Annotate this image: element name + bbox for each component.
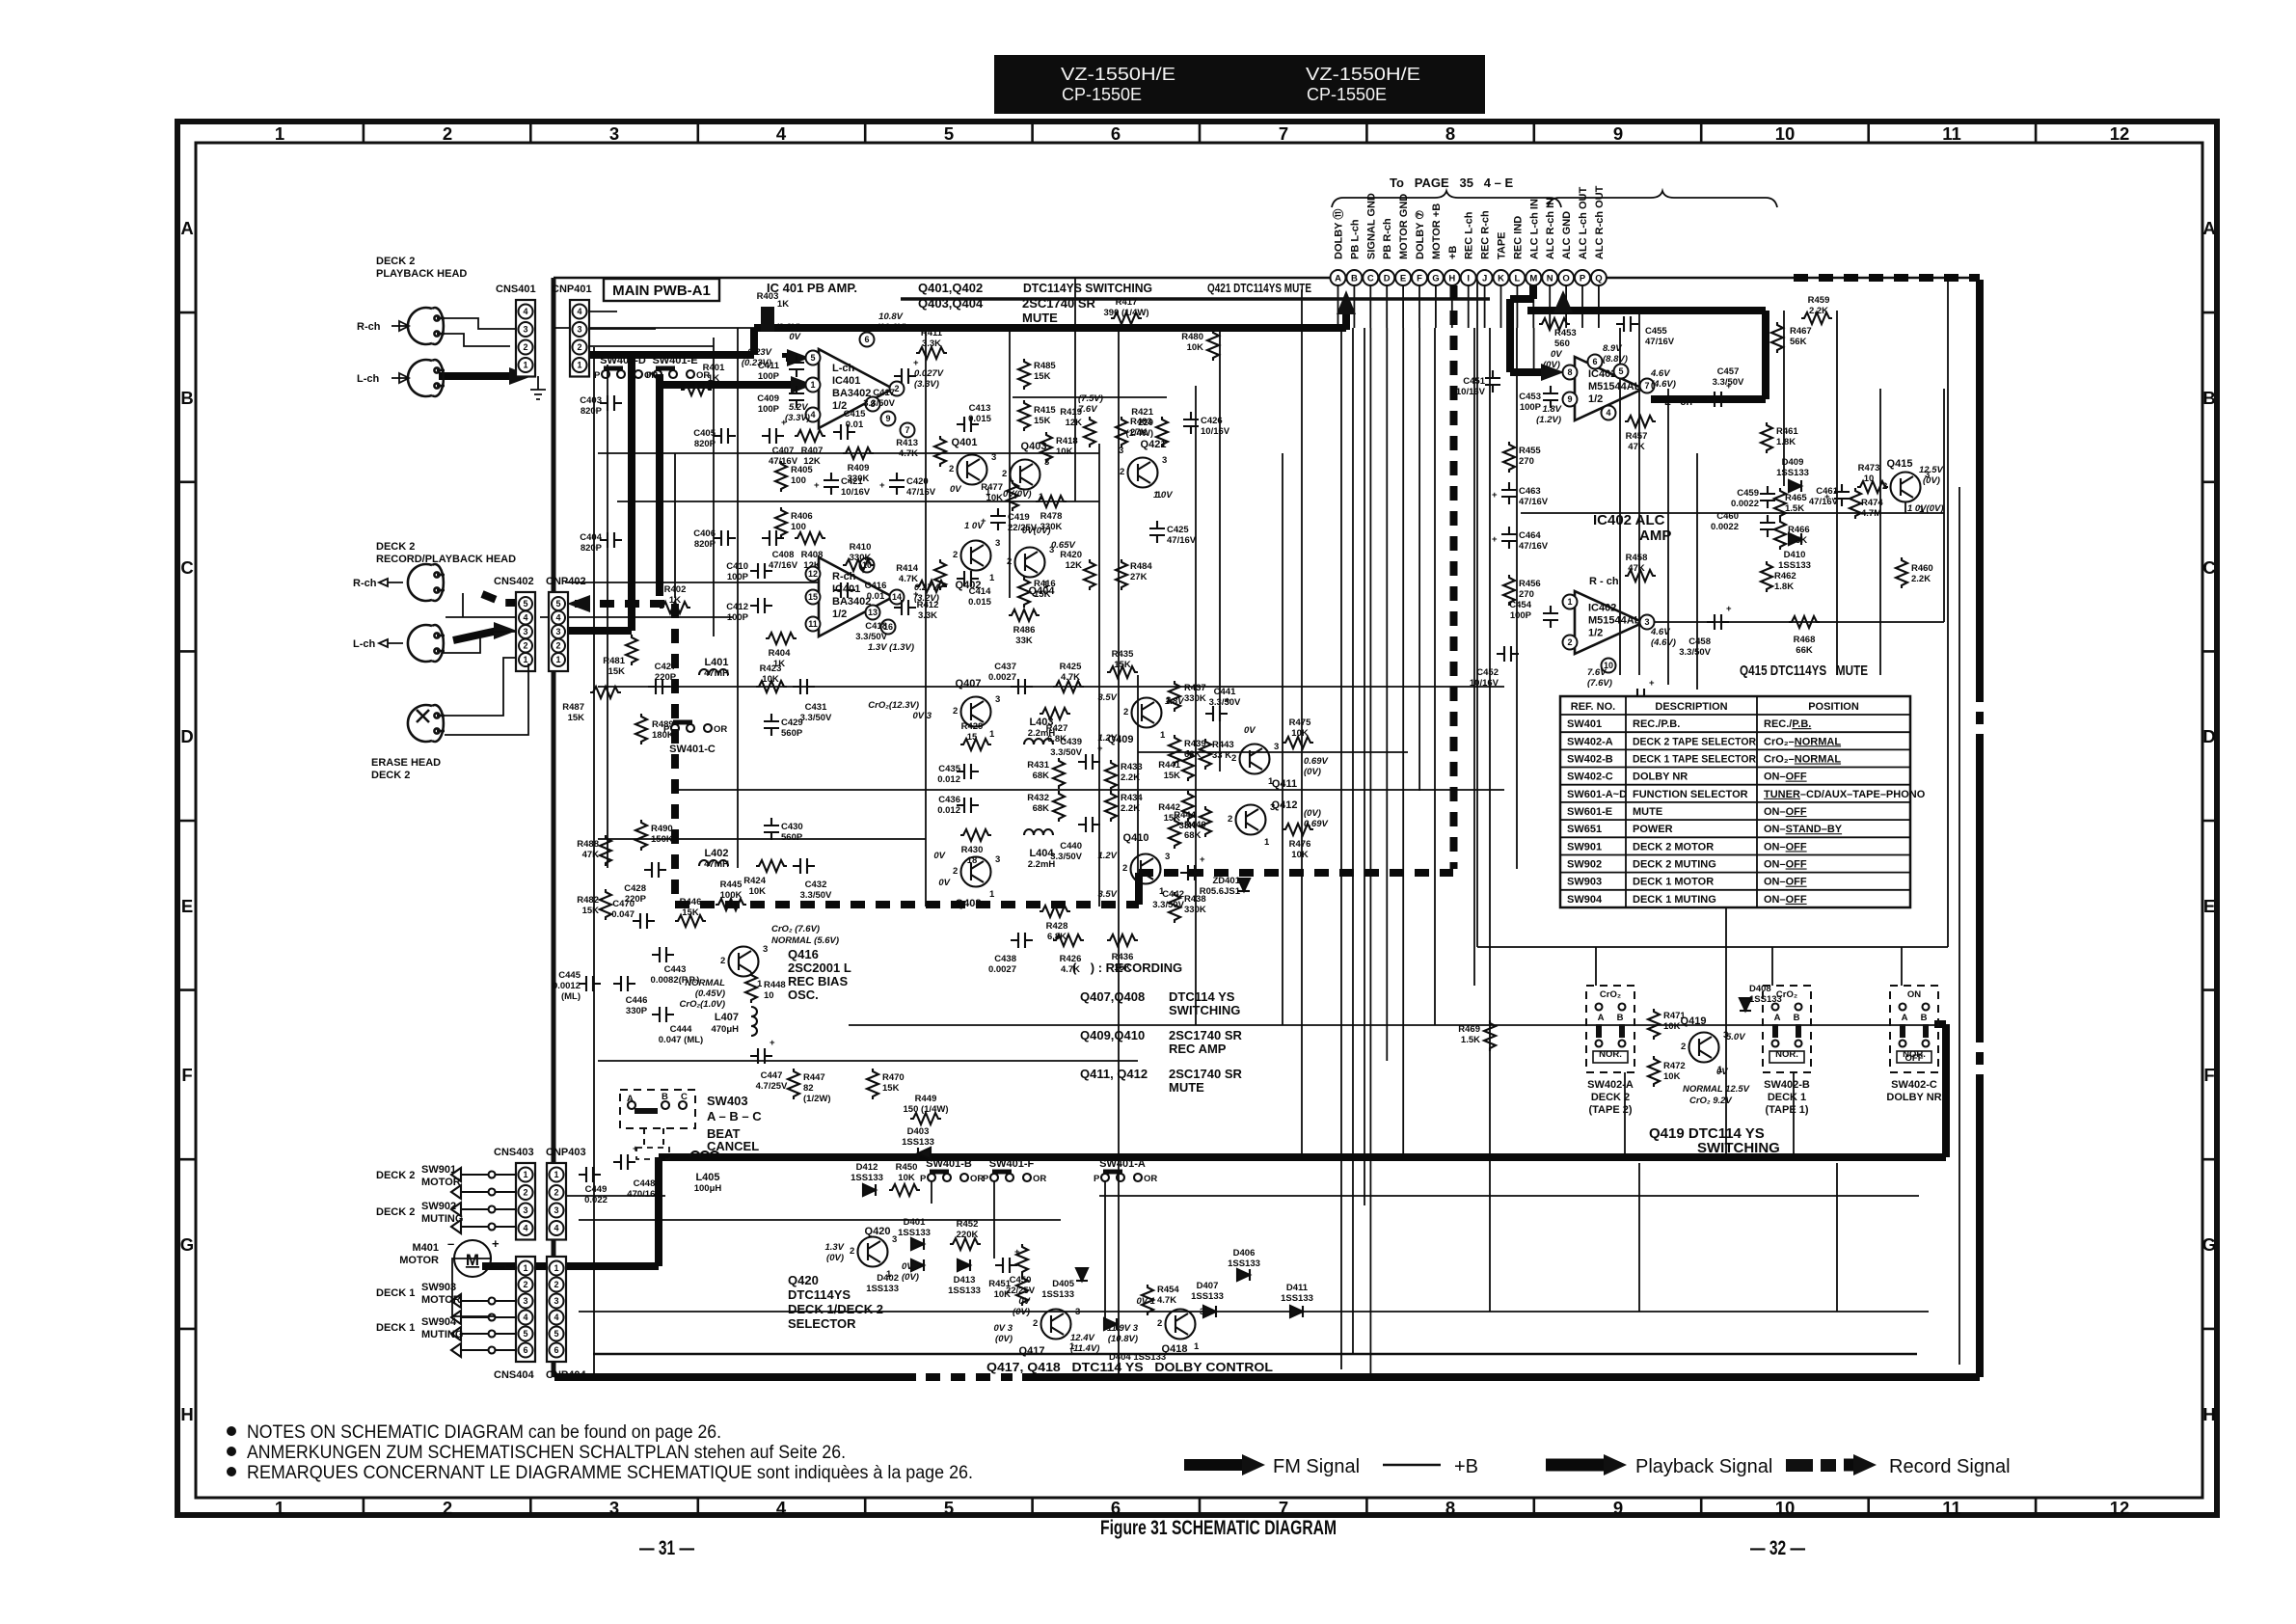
resistor R475 <box>1283 717 1313 748</box>
capacitor C450 <box>995 1247 1036 1296</box>
arrow into IC402 pin 8 <box>1541 364 1564 381</box>
resistor R453 <box>1539 318 1577 349</box>
resistor R457 <box>1625 416 1656 452</box>
wire heavy vertical at SW401-E <box>656 374 663 596</box>
label MAIN PWB-A1 box <box>604 279 719 301</box>
svg-text:DESCRIPTION: DESCRIPTION <box>1655 701 1727 713</box>
wire heads to CNS402 <box>442 593 517 653</box>
switch SW401-A <box>1094 1172 1157 1184</box>
resistor R443 <box>1200 739 1234 770</box>
capacitor C440 <box>1050 817 1100 862</box>
transistor Q412 <box>1228 799 1297 848</box>
connector CNS402 <box>494 576 535 671</box>
inductor L404 <box>1024 829 1055 870</box>
resistor R419 <box>1060 407 1095 447</box>
page outer border <box>177 122 2217 1515</box>
svg-text:REMARQUES CONCERNANT LE DIAGRA: REMARQUES CONCERNANT LE DIAGRAMME SCHEMA… <box>247 1462 973 1483</box>
resistor R486 <box>1009 609 1040 646</box>
wire ALC section box bottom edge <box>1477 946 1948 948</box>
wire heavy bottom rail left <box>554 1373 916 1381</box>
switch SW903 contact a <box>451 1294 517 1308</box>
resistor R478 <box>1036 496 1067 532</box>
diode D408 <box>1740 984 1782 1011</box>
capacitor C428 <box>624 862 666 905</box>
header model plate <box>994 55 1485 114</box>
svg-text:FM Signal: FM Signal <box>1273 1456 1360 1477</box>
switch SW901 contact a <box>451 1168 517 1181</box>
connector CNP403 <box>546 1147 586 1240</box>
svg-text:SW601-A~D: SW601-A~D <box>1567 789 1627 800</box>
diode D <box>1104 1318 1117 1330</box>
transistor Q403 <box>1002 441 1049 502</box>
resistor R484 <box>1116 559 1152 590</box>
resistor R411 <box>916 328 947 359</box>
capacitor C418 <box>855 589 919 642</box>
svg-text:MUTE: MUTE <box>1633 806 1662 818</box>
svg-text:SW902: SW902 <box>1567 859 1602 871</box>
resistor R450 <box>889 1162 920 1196</box>
resistor R435 <box>1107 649 1138 678</box>
inductor L401 <box>699 657 729 679</box>
arrow R-ch rec <box>379 579 403 586</box>
transistor Q409 <box>1108 695 1172 745</box>
resistor R415 <box>1018 400 1056 431</box>
resistor R421 <box>1131 407 1168 447</box>
wire record dashed into CNP402 pin5 <box>575 600 675 608</box>
node B pin circle <box>1346 270 1362 285</box>
svg-text:FUNCTION SELECTOR: FUNCTION SELECTOR <box>1633 789 1748 800</box>
capacitor C419 <box>981 508 1038 533</box>
wire heavy ALC L-ch IN to IC402 pin8 <box>1510 285 1547 372</box>
resistor R426 <box>1053 934 1084 975</box>
diode D402 <box>866 1259 924 1294</box>
resistor R412 <box>916 581 947 621</box>
resistor R461 <box>1761 422 1798 453</box>
switch SW402-B <box>1763 986 1811 1072</box>
resistor R476 <box>1283 824 1313 860</box>
svg-text:DOLBY NR: DOLBY NR <box>1633 771 1688 783</box>
node E pin circle <box>1395 270 1411 285</box>
svg-text:DECK 2 MOTOR: DECK 2 MOTOR <box>1633 841 1714 853</box>
resistor R458 <box>1625 553 1656 582</box>
resistor R <box>1016 1244 1028 1275</box>
resistor R459 <box>1801 295 1832 324</box>
diode D403 <box>902 1126 934 1159</box>
resistor R404 <box>766 633 797 669</box>
resistor R418 <box>1040 432 1078 463</box>
node J pin circle <box>1477 270 1493 285</box>
ruler column numbers <box>275 123 2129 1518</box>
inductor L403 <box>1024 717 1055 744</box>
wire heavy CNP402 pin3 up to SW401 <box>567 353 632 631</box>
svg-text:SW401: SW401 <box>1567 718 1602 730</box>
switch SW902 contact b <box>451 1220 517 1233</box>
svg-text:TUNER–CD/AUX–TAPE–PHONO: TUNER–CD/AUX–TAPE–PHONO <box>1764 789 1926 800</box>
node D pin circle <box>1379 270 1394 285</box>
wire heavy bottom rail right <box>1022 1373 1980 1381</box>
transistor Q <box>720 944 768 989</box>
arrow into CNS402 pin3 <box>494 622 517 639</box>
resistor R460 <box>1896 557 1933 588</box>
resistor R447 <box>788 1069 825 1099</box>
resistor R437 <box>1169 681 1206 712</box>
capacitor C412 <box>726 598 772 623</box>
resistor R439 <box>1169 735 1206 766</box>
switch SW902 contact a <box>451 1203 517 1216</box>
wire heavy motor +B bottom <box>482 1024 1946 1266</box>
svg-text:Playback Signal: Playback Signal <box>1635 1456 1772 1477</box>
wire heavy branch to IC401 pin5 <box>786 353 789 358</box>
capacitor C435 <box>937 764 979 785</box>
switch SW904 contact a <box>451 1327 517 1340</box>
node Q pin circle <box>1591 270 1607 285</box>
capacitor C453 <box>1519 386 1558 413</box>
ruler tick marks <box>180 124 2214 1512</box>
transistor Q421 <box>1120 439 1167 501</box>
legend record arrow <box>1786 1454 1877 1475</box>
resistor R414 <box>896 559 946 590</box>
resistor R440 <box>1169 818 1206 849</box>
svg-text:SW901: SW901 <box>1567 841 1602 853</box>
capacitor C426 <box>1183 412 1230 437</box>
wire heavy right vertical dashed gaps <box>1976 690 1984 1082</box>
resistor R416 <box>1018 577 1056 608</box>
op-amp IC402 R-ch <box>1563 591 1655 673</box>
record/playback head L-ch deck2 <box>408 625 445 662</box>
resistor R420 <box>1060 550 1095 590</box>
resistor R402 <box>660 584 690 613</box>
arrow into IC401 pin 1 <box>791 376 814 393</box>
capacitor C461 <box>1809 484 1850 507</box>
capacitor C449 <box>579 1167 608 1205</box>
wire heavy L-ch rec head <box>453 631 498 640</box>
wire heavy into IC401 pin1 <box>660 381 791 389</box>
resistor R448 <box>745 972 786 1003</box>
svg-text:DECK 1 MUTING: DECK 1 MUTING <box>1633 894 1716 906</box>
resistor R409 <box>843 447 874 484</box>
note bullet 2 <box>227 1447 236 1456</box>
resistor R454 <box>1142 1285 1179 1315</box>
capacitor C403 <box>580 395 622 417</box>
node N pin circle <box>1542 270 1557 285</box>
resistor R430 <box>960 829 991 866</box>
resistor R483 <box>1116 417 1152 447</box>
resistor R405 <box>775 461 813 492</box>
arrow up into pin B <box>1337 290 1356 330</box>
wire erase head to CNS402 <box>445 658 528 735</box>
svg-text:ON–OFF: ON–OFF <box>1764 841 1807 853</box>
diode D409 <box>1776 457 1809 492</box>
connector CNP401 <box>552 284 592 377</box>
resistor R408 <box>795 532 825 571</box>
connector CNS403 <box>494 1147 535 1240</box>
svg-text:Record Signal: Record Signal <box>1889 1456 2011 1477</box>
resistor R465 <box>1774 488 1807 519</box>
resistor R427 <box>1040 708 1070 744</box>
svg-text:ON–OFF: ON–OFF <box>1764 806 1807 818</box>
transistor Q402 <box>953 538 1000 591</box>
node C pin circle <box>1363 270 1378 285</box>
capacitor C457 <box>1707 366 1744 407</box>
legend FM signal arrow <box>1184 1454 1265 1475</box>
capacitor C414 <box>957 571 992 608</box>
svg-text:Figure 31 SCHEMATIC DIAGRAM: Figure 31 SCHEMATIC DIAGRAM <box>1100 1517 1337 1539</box>
resistor R438 <box>1169 892 1206 923</box>
svg-text:SW651: SW651 <box>1567 824 1602 835</box>
capacitor C441 <box>1205 687 1241 721</box>
svg-text:CrO₂–NORMAL: CrO₂–NORMAL <box>1764 736 1841 747</box>
resistor R456 <box>1503 575 1541 606</box>
capacitor C425 <box>1149 521 1197 546</box>
svg-text:SW903: SW903 <box>1567 877 1602 888</box>
capacitor C427 <box>648 662 677 694</box>
resistor R489 <box>635 714 674 744</box>
svg-text:POWER: POWER <box>1633 824 1673 835</box>
op-amp IC402 L-ch <box>1563 355 1655 421</box>
wire vertical bus lines <box>594 278 1959 1377</box>
resistor R482 <box>577 889 611 920</box>
switch SW903 contact b <box>451 1311 517 1324</box>
capacitor C413 <box>957 403 992 432</box>
node L pin circle <box>1509 270 1525 285</box>
inductor L402 <box>699 848 729 870</box>
transistor Q420 <box>850 1226 897 1280</box>
transistor Q407 <box>953 678 1000 740</box>
legend +B line <box>1383 1464 1441 1467</box>
capacitor C445 <box>553 970 601 991</box>
resistor R413 <box>896 436 946 467</box>
svg-text:DECK 2 TAPE SELECTOR: DECK 2 TAPE SELECTOR <box>1633 736 1756 747</box>
capacitor C464 <box>1492 527 1549 552</box>
svg-text:REC./P.B.: REC./P.B. <box>1764 718 1811 730</box>
playback head R-ch deck2 <box>408 308 445 344</box>
svg-text:DECK 2 MUTING: DECK 2 MUTING <box>1633 859 1716 871</box>
arrow L-ch rec <box>379 639 403 647</box>
capacitor C443 <box>651 947 700 986</box>
node G pin circle <box>1428 270 1444 285</box>
capacitor C436 <box>937 795 979 816</box>
transistor Q404 <box>1007 545 1055 597</box>
resistor R403 1K bold <box>757 291 790 332</box>
wire heavy bottom rail dashes <box>926 1373 1013 1381</box>
capacitor C406 <box>693 528 736 550</box>
legend playback arrow <box>1546 1454 1627 1475</box>
arrow L-ch <box>392 373 409 383</box>
resistor R452 <box>950 1219 981 1250</box>
resistor R441 <box>1158 750 1194 781</box>
switch SW401-E <box>646 368 710 381</box>
wire record dashed mid horizontal <box>1139 869 1453 877</box>
wire record dashed vertical left <box>671 604 679 905</box>
wire head R-ch to CNS401 <box>445 318 515 346</box>
resistor R469 <box>1458 1020 1496 1051</box>
resistor R451 <box>988 1275 1028 1306</box>
switch SW904 contact b <box>451 1343 517 1357</box>
switch SW401-B <box>920 1172 984 1184</box>
capacitor C463 <box>1492 482 1549 507</box>
wire ALC section box left edge <box>1476 278 1478 947</box>
diode D405 <box>1041 1268 1088 1300</box>
resistor R462 <box>1761 561 1796 592</box>
wire record dashes on top edge <box>1794 274 1980 282</box>
wire motor leads <box>452 1259 517 1316</box>
capacitor C454 <box>1509 600 1558 628</box>
wire heavy ALC L-ch OUT loop <box>1527 311 1766 399</box>
resistor R455 <box>1503 442 1541 473</box>
transistor Q411 <box>1231 742 1297 790</box>
svg-text:SW904: SW904 <box>1567 894 1603 906</box>
capacitor C458 <box>1679 604 1732 658</box>
svg-text:+B: +B <box>1454 1456 1478 1477</box>
wire main PWB-A1 bottom edge <box>593 1353 1917 1356</box>
capacitor C460 <box>1711 511 1775 537</box>
resistor R485 <box>1018 359 1056 390</box>
capacitor C417 <box>863 358 919 409</box>
capacitor C420 <box>879 473 936 498</box>
inductor L405 <box>690 1151 721 1194</box>
capacitor C438 <box>988 933 1033 975</box>
resistor R434 <box>1105 791 1143 822</box>
capacitor C409 <box>757 386 804 415</box>
capacitor C407 <box>762 418 798 467</box>
diode D411 <box>1281 1283 1313 1317</box>
wire record heavy elbow <box>1135 873 1143 905</box>
svg-text:NOTES ON SCHEMATIC DIAGRAM can: NOTES ON SCHEMATIC DIAGRAM can be found … <box>247 1421 721 1443</box>
capacitor C411 <box>758 355 804 382</box>
svg-text:— 32 —: — 32 — <box>1750 1537 1805 1559</box>
svg-text:SW402-A: SW402-A <box>1567 736 1613 747</box>
svg-text:SW601-E: SW601-E <box>1567 806 1612 818</box>
switch SW402-A <box>1586 986 1634 1072</box>
capacitor C431 <box>793 679 832 723</box>
resistor R471 <box>1648 1009 1686 1040</box>
capacitor C408 <box>762 530 798 571</box>
svg-text:DECK 1 MOTOR: DECK 1 MOTOR <box>1633 877 1714 888</box>
resistor R472 <box>1648 1056 1686 1087</box>
resistor R425 <box>1053 662 1084 692</box>
diode D407 <box>1191 1281 1224 1317</box>
node A pin circle <box>1331 270 1346 285</box>
resistor R468 <box>1789 616 1820 656</box>
resistor R417 <box>1104 297 1149 324</box>
switch position table <box>1560 696 1926 907</box>
wire playback L-ch heavy from head <box>439 372 521 380</box>
wire record dashed lower horizontal <box>675 901 1139 908</box>
capacitor C447 <box>750 1038 788 1092</box>
arrow up into pin P <box>1553 290 1573 314</box>
wire record dashed R-ch rec head <box>482 594 517 603</box>
resistor R449 <box>904 1094 949 1124</box>
capacitor C451 <box>1456 370 1500 397</box>
resistor R442 <box>1158 791 1194 824</box>
switch SW401-F <box>983 1172 1046 1184</box>
resistor R467 <box>1771 322 1812 353</box>
note bullet 1 <box>227 1426 236 1436</box>
arrow into IC401 pin 5 <box>787 349 810 366</box>
node K pin circle <box>1494 270 1509 285</box>
svg-text:ON–OFF: ON–OFF <box>1764 894 1807 906</box>
connector CNS401 <box>496 284 536 377</box>
erase head X mark <box>417 710 429 722</box>
svg-text:SW402-B: SW402-B <box>1567 754 1613 766</box>
diode D413 <box>948 1259 981 1296</box>
wire stubs below pin circles <box>1338 285 1599 328</box>
wire record dashed REC R-ch vertical <box>1450 285 1458 869</box>
svg-text:ON–OFF: ON–OFF <box>1764 859 1807 871</box>
svg-text:DECK 1 TAPE SELECTOR: DECK 1 TAPE SELECTOR <box>1633 754 1756 766</box>
switch SW402-C <box>1890 986 1938 1072</box>
resistor R428 <box>1040 906 1070 942</box>
capacitor C470 <box>611 899 655 929</box>
diode D412 <box>851 1162 883 1196</box>
node O pin circle <box>1558 270 1574 285</box>
capacitor C456 <box>1630 678 1668 731</box>
wire playback L-ch heavy to Dolby pin B <box>588 328 1346 355</box>
capacitor C416 <box>833 581 886 602</box>
svg-text:SW402-C: SW402-C <box>1567 771 1613 783</box>
resistor R473 <box>1857 463 1888 493</box>
node F pin circle <box>1412 270 1427 285</box>
node P pin circle <box>1575 270 1590 285</box>
resistor R445 <box>716 880 746 910</box>
playback head L-ch deck2 <box>408 360 445 396</box>
resistor R444 <box>1174 806 1211 837</box>
transistor Q417 <box>1019 1307 1081 1357</box>
op-amp IC401 R-ch <box>806 557 905 636</box>
switch SW401-D <box>594 368 658 381</box>
resistor R477 <box>981 480 1018 511</box>
resistor R474 <box>1850 488 1883 519</box>
switch <box>663 722 727 735</box>
resistor R431 <box>1027 758 1065 789</box>
erase head deck2 <box>408 705 445 742</box>
note bullet 3 <box>227 1467 236 1476</box>
capacitor C455 <box>1616 306 1675 347</box>
capacitor C459 <box>1731 486 1775 509</box>
op-amp IC401 L-ch <box>806 333 915 438</box>
transistor Q415 <box>1882 458 1930 515</box>
capacitor C432 <box>793 858 832 901</box>
inductor L407 <box>711 1007 757 1036</box>
resistor R432 <box>1027 791 1065 822</box>
resistor R429 <box>960 721 991 750</box>
capacitor C421 <box>814 473 871 498</box>
svg-text:REF. NO.: REF. NO. <box>1571 701 1615 713</box>
svg-text:— 31 —: — 31 — <box>639 1537 694 1559</box>
resistor R446 <box>675 897 706 927</box>
brace to page 35 <box>1332 191 1561 207</box>
switch SW901 contact b <box>451 1185 517 1199</box>
capacitor C444 <box>652 1007 703 1045</box>
capacitor C404 <box>580 532 622 554</box>
resistor R488 <box>577 835 611 866</box>
capacitor C410 <box>726 561 772 582</box>
wire SW401 switch stubs down <box>932 1181 1105 1324</box>
resistor R401 <box>681 363 725 395</box>
capacitor C437 <box>988 662 1033 694</box>
wire main PWB-A1 top edge <box>554 277 1980 280</box>
resistor R433 <box>1105 760 1143 791</box>
node H pin circle <box>1445 270 1460 285</box>
capacitor C452 <box>1470 646 1519 689</box>
capacitor C429 <box>764 714 803 739</box>
svg-text:ON–OFF: ON–OFF <box>1764 877 1807 888</box>
resistor R470 <box>867 1069 905 1099</box>
switch SW403 dashed box <box>620 1090 695 1159</box>
wire switches to CNS403 <box>496 1175 517 1227</box>
header model text right <box>1306 65 1420 104</box>
capacitor C430 <box>764 818 803 843</box>
